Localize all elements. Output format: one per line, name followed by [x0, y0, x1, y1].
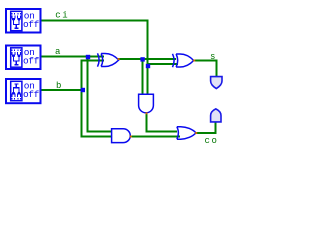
wire s: XOR2 output to LED s	[194, 61, 217, 77]
wire x1: XOR1 output to XOR2 upper input	[119, 58, 177, 60]
pin AND1 out	[146, 112, 148, 114]
wire co: OR output to LED co	[196, 122, 216, 133]
LED co (dome up, flat bottom)	[211, 109, 221, 122]
node ci/xor2	[146, 64, 150, 68]
node a tap	[86, 55, 90, 59]
pin XOR2 out	[193, 60, 195, 62]
wire b down to AND2 lower input	[82, 90, 112, 137]
pin OR out	[195, 132, 197, 134]
wire b up into XOR1 lower input	[82, 61, 105, 91]
wire and2 out to OR lower input	[131, 136, 181, 138]
switch a	[6, 46, 41, 70]
svg-text:off: off	[23, 55, 40, 66]
and gate AND1 (pointing down)	[139, 94, 154, 112]
switch b (icon flipped vertically)	[6, 79, 41, 103]
svg-text:off: off	[23, 19, 40, 30]
wire ci: switch1 to elbow down to AND1	[42, 21, 148, 94]
wire b: switch3 to junction	[40, 89, 83, 91]
svg-text:ci: ci	[55, 10, 69, 20]
wire and1 out to OR upper input	[147, 114, 178, 132]
wire x1 tap down to AND1	[142, 59, 144, 94]
pin AND2 out	[130, 136, 132, 138]
svg-text:b: b	[56, 81, 63, 91]
svg-text:s: s	[210, 52, 217, 62]
LED s (flat top, dome down)	[211, 77, 222, 89]
wire a: switch2 to XOR1 upper input	[42, 56, 105, 58]
pin XOR1 out	[118, 58, 120, 60]
svg-text:off: off	[23, 89, 40, 100]
svg-text:co: co	[205, 136, 219, 146]
or gate OR1 (co)	[177, 127, 196, 139]
xor gate XOR1 (a^b)	[98, 53, 119, 66]
wire a tap down to AND2 upper input	[88, 57, 112, 132]
node b tap	[81, 88, 85, 92]
xor gate XOR2 (s)	[173, 54, 194, 67]
svg-text:a: a	[55, 47, 62, 57]
node x1 tap	[140, 57, 144, 61]
and gate AND2 (pointing right)	[112, 129, 131, 143]
wire ci elbow into XOR2 lower input	[148, 63, 179, 65]
